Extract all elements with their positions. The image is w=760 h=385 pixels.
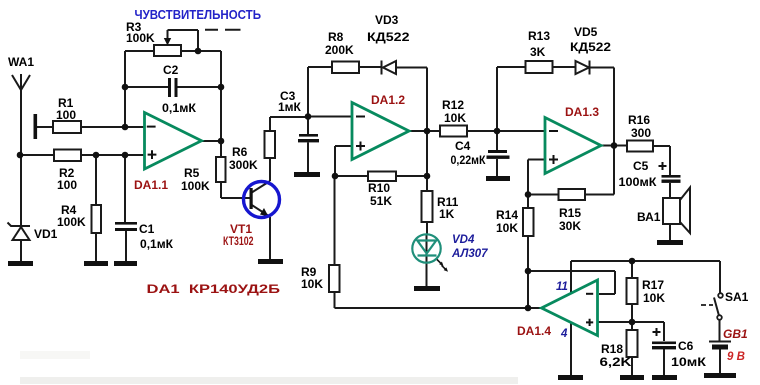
svg-text:VD4: VD4: [452, 234, 475, 246]
svg-text:C2: C2: [163, 63, 179, 77]
svg-text:100: 100: [56, 108, 76, 122]
svg-text:R5: R5: [184, 166, 200, 180]
svg-text:АЛ307: АЛ307: [451, 248, 488, 260]
svg-text:R14: R14: [496, 208, 518, 222]
svg-text:200K: 200K: [325, 43, 354, 57]
svg-text:100K: 100K: [181, 179, 210, 193]
svg-text:0,22мК: 0,22мК: [451, 153, 487, 167]
svg-text:R16: R16: [628, 113, 650, 127]
svg-text:R12: R12: [442, 98, 464, 112]
svg-text:10K: 10K: [496, 221, 518, 235]
svg-text:R15: R15: [559, 206, 581, 220]
svg-text:GB1: GB1: [723, 327, 748, 341]
svg-text:R17: R17: [642, 278, 664, 292]
svg-text:100K: 100K: [126, 31, 155, 45]
svg-text:6,2K: 6,2K: [600, 355, 632, 369]
svg-text:R13: R13: [528, 29, 550, 43]
svg-text:VD5: VD5: [574, 25, 598, 39]
svg-text:VD1: VD1: [34, 227, 58, 241]
svg-text:1мК: 1мК: [278, 100, 302, 114]
svg-text:100K: 100K: [57, 215, 86, 229]
svg-text:R10: R10: [368, 181, 390, 195]
svg-text:КД522: КД522: [367, 30, 410, 44]
svg-text:300K: 300K: [229, 158, 258, 172]
svg-text:10K: 10K: [643, 291, 665, 305]
svg-text:SA1: SA1: [725, 290, 749, 304]
svg-text:DA1.1: DA1.1: [134, 178, 168, 192]
svg-text:VD3: VD3: [375, 13, 399, 27]
svg-text:DA1 КР140УД2Б: DA1 КР140УД2Б: [147, 282, 281, 296]
svg-text:30K: 30K: [559, 219, 581, 233]
svg-text:DA1.4: DA1.4: [517, 324, 551, 338]
svg-text:R18: R18: [601, 342, 623, 356]
svg-text:ВА1: ВА1: [637, 210, 661, 224]
svg-text:0,1мК: 0,1мК: [140, 237, 174, 251]
svg-text:9 В: 9 В: [727, 351, 745, 363]
svg-text:R8: R8: [328, 30, 344, 44]
svg-text:10K: 10K: [301, 277, 323, 291]
svg-text:3K: 3K: [530, 45, 546, 59]
svg-text:DA1.2: DA1.2: [371, 93, 405, 107]
svg-text:КТ3102: КТ3102: [223, 234, 254, 248]
svg-text:100мК: 100мК: [619, 175, 658, 189]
svg-text:C4: C4: [455, 139, 471, 153]
svg-text:0,1мК: 0,1мК: [162, 101, 197, 115]
svg-text:C6: C6: [678, 339, 694, 353]
svg-text:4: 4: [560, 328, 568, 340]
svg-text:100: 100: [57, 178, 77, 192]
svg-text:10K: 10K: [444, 111, 466, 125]
svg-text:1K: 1K: [439, 207, 455, 221]
svg-text:C1: C1: [139, 222, 155, 236]
svg-text:ЧУВСТВИТЕЛЬНОСТЬ: ЧУВСТВИТЕЛЬНОСТЬ: [135, 7, 262, 22]
svg-text:DA1.3: DA1.3: [565, 105, 599, 119]
svg-text:КД522: КД522: [570, 40, 611, 54]
svg-text:10мК: 10мК: [671, 355, 707, 369]
svg-text:51K: 51K: [370, 194, 392, 208]
svg-text:300: 300: [631, 126, 651, 140]
svg-text:WA1: WA1: [8, 55, 34, 69]
svg-text:R6: R6: [232, 145, 248, 159]
svg-text:11: 11: [556, 281, 568, 293]
svg-text:C5: C5: [633, 159, 649, 173]
